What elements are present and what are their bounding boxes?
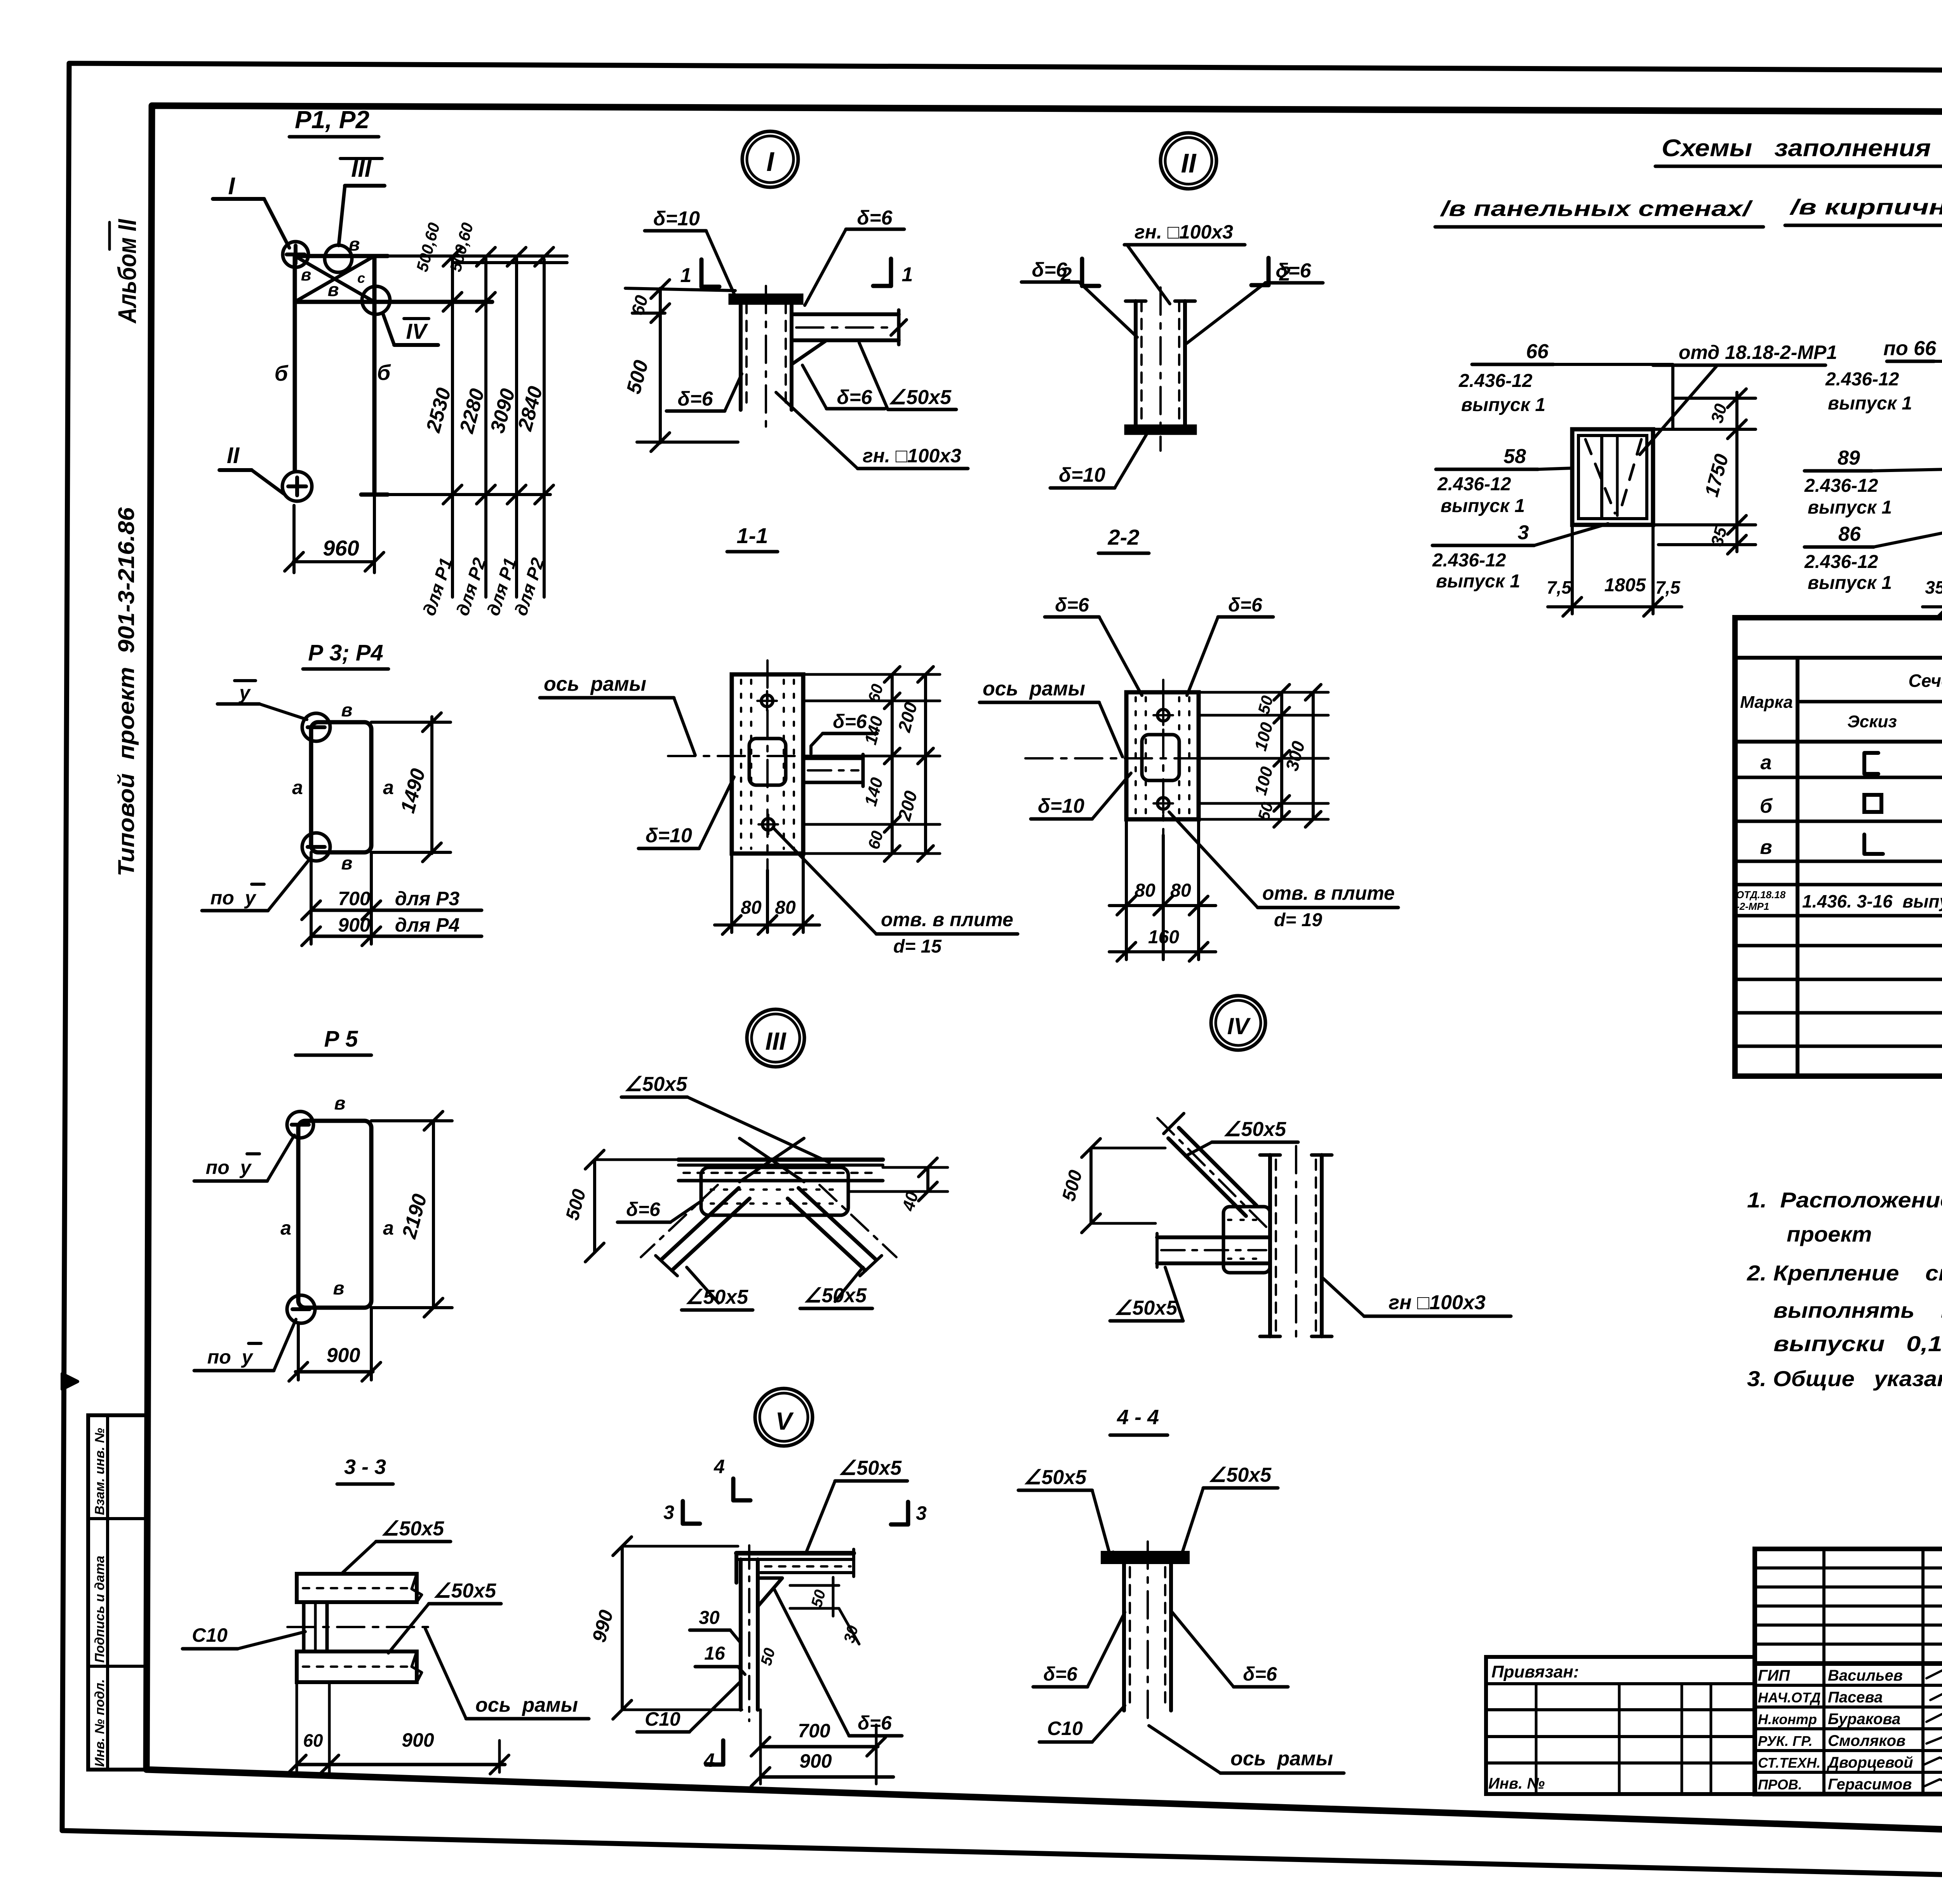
svg-text:ПРОВ.: ПРОВ. (1758, 1777, 1802, 1793)
svg-text:2.436-12: 2.436-12 (1804, 552, 1878, 572)
svg-text:а: а (383, 1217, 394, 1239)
row a: channel sketch (1864, 753, 1878, 774)
V small dimension 50/30 right (790, 1584, 839, 1587)
svg-text:δ=6: δ=6 (1055, 594, 1089, 616)
node circle section III (325, 245, 352, 272)
svg-text:δ=6: δ=6 (833, 711, 867, 732)
svg-text:d= 15: d= 15 (893, 936, 942, 957)
svg-text:∠50х5: ∠50х5 (1223, 1118, 1286, 1141)
svg-text:1-1: 1-1 (737, 523, 768, 548)
svg-text:∠50х5: ∠50х5 (888, 386, 952, 409)
svg-text:∠50х5: ∠50х5 (839, 1457, 902, 1479)
svg-text:по у: по у (211, 887, 257, 909)
IV gusset plate on column (1223, 1207, 1270, 1273)
svg-text:3: 3 (663, 1502, 674, 1523)
svg-text:80: 80 (1170, 880, 1191, 901)
svg-text:δ=6: δ=6 (626, 1198, 661, 1220)
detail II base plate (1126, 426, 1195, 433)
1-1 bolt hole top (761, 695, 773, 707)
svg-text:58: 58 (1503, 445, 1526, 468)
P1,P2 top panel diagonals (295, 256, 374, 302)
svg-text:гн. □100х3: гн. □100х3 (863, 445, 961, 467)
svg-text:/в кирпичных стенах/: /в кирпичных стенах/ (1789, 195, 1942, 219)
svg-text:2-2: 2-2 (1108, 525, 1140, 549)
svg-text:Альбом II: Альбом II (113, 219, 141, 324)
svg-text:1805: 1805 (1604, 575, 1646, 596)
svg-text:С10: С10 (645, 1708, 680, 1730)
svg-text:а: а (292, 777, 303, 798)
III gusset plate (701, 1167, 848, 1215)
svg-text:по у: по у (206, 1157, 252, 1178)
svg-text:Пасева: Пасева (1828, 1689, 1883, 1706)
svg-text:Сечения: Сечения (1908, 671, 1942, 691)
window 1 mullion (1600, 435, 1603, 519)
stamp: Привязан table (1486, 1657, 1755, 1794)
2-2 bolt hole top (1157, 709, 1169, 721)
svg-text:ГИП: ГИП (1758, 1667, 1790, 1684)
svg-text:Схемы заполнения оконных: Схемы заполнения оконных проемов ОК1 (1662, 135, 1942, 162)
svg-text:II: II (1181, 148, 1197, 178)
2-2 plate weld hatch (1135, 697, 1137, 814)
P5 dimension 2190 (432, 1121, 435, 1308)
svg-text:IV: IV (406, 319, 429, 343)
svg-text:δ=6: δ=6 (1276, 260, 1311, 282)
svg-text:/в панельных стенах/: /в панельных стенах/ (1439, 196, 1753, 221)
svg-text:отв. в плите: отв. в плите (881, 909, 1013, 930)
3-3 web channel C10 (302, 1602, 306, 1651)
detail II column (tube) (1134, 301, 1138, 426)
4-4 top flange plate (1103, 1553, 1188, 1562)
svg-text:δ=6: δ=6 (1032, 259, 1067, 281)
svg-text:ось рамы: ось рамы (983, 678, 1085, 700)
P1,P2 frame bottom of top panel (295, 300, 492, 304)
node circle section II (282, 472, 312, 501)
svg-text:δ=6: δ=6 (857, 207, 893, 229)
svg-text:Дворцевой: Дворцевой (1827, 1754, 1913, 1771)
svg-text:Герасимов: Герасимов (1828, 1776, 1912, 1793)
svg-text:выпуск 1: выпуск 1 (1461, 395, 1545, 415)
svg-text:35: 35 (1925, 577, 1942, 598)
svg-text:в: в (301, 265, 311, 284)
svg-text:2.436-12: 2.436-12 (1432, 550, 1506, 571)
svg-text:4: 4 (713, 1456, 725, 1477)
2-2 bottom dimension 80/80 and 160 (1125, 819, 1128, 960)
svg-text:89: 89 (1838, 447, 1860, 469)
svg-text:Смоляков: Смоляков (1828, 1732, 1905, 1749)
svg-text:δ=10: δ=10 (1059, 464, 1105, 486)
P1,P2 frame left chord (293, 256, 297, 470)
svg-text:выполнять в соответствии: выполнять в соответствии с серией 2.436-… (1773, 1298, 1942, 1322)
III dimension 500 left (593, 1160, 596, 1252)
node circle section IV (362, 286, 390, 314)
svg-text:выпуск 1: выпуск 1 (1441, 496, 1525, 516)
svg-text:РУК. ГР.: РУК. ГР. (1758, 1733, 1813, 1749)
svg-text:2. Крепление стальных пер: 2. Крепление стальных переплетов в оконн… (1747, 1261, 1942, 1285)
svg-text:δ=6: δ=6 (1043, 1663, 1078, 1685)
1-1 tube cross-section (749, 739, 786, 785)
3-3 top flange sandwich (297, 1574, 417, 1602)
svg-text:2.436-12: 2.436-12 (1804, 476, 1878, 496)
section circle I (double ring) (742, 131, 798, 187)
svg-text:700: 700 (798, 1720, 830, 1742)
svg-text:1. Расположение оконных пр: 1. Расположение оконных проемов ОК1 смот… (1747, 1188, 1942, 1212)
svg-text:по у: по у (207, 1346, 254, 1368)
svg-text:∠50х5: ∠50х5 (804, 1284, 867, 1307)
svg-text:отд 18.18-2-МР1: отд 18.18-2-МР1 (1679, 341, 1837, 363)
V dimension 990 (621, 1546, 624, 1710)
svg-text:б: б (275, 361, 289, 385)
3-3 break marks right (412, 1574, 422, 1602)
svg-text:80: 80 (741, 897, 762, 918)
svg-text:δ=6: δ=6 (1243, 1663, 1277, 1685)
1-1 base plate outline (732, 674, 803, 854)
svg-text:гн □100х3: гн □100х3 (1389, 1291, 1486, 1314)
svg-text:2.436-12: 2.436-12 (1437, 474, 1511, 495)
svg-text:3. Общие указания смотреть: 3. Общие указания смотреть на листе 1. (1747, 1366, 1942, 1391)
table header grid (1735, 656, 1942, 660)
svg-text:III: III (765, 1027, 787, 1055)
svg-text:Подпись и дата: Подпись и дата (92, 1556, 107, 1663)
P5 node circle top (287, 1111, 313, 1138)
svg-text:в: в (328, 280, 339, 300)
svg-text:δ=10: δ=10 (1038, 795, 1084, 817)
svg-text:б: б (377, 360, 391, 385)
svg-text:ось рамы: ось рамы (1230, 1747, 1333, 1770)
svg-text:3 - 3: 3 - 3 (344, 1455, 386, 1479)
2-2 plate outline (1126, 692, 1199, 819)
svg-text:30: 30 (699, 1608, 720, 1628)
svg-text:∠50х5: ∠50х5 (685, 1286, 748, 1308)
node circle section I (283, 242, 308, 267)
row б: square tube sketch (1864, 795, 1881, 812)
svg-text:900: 900 (799, 1750, 832, 1772)
1-1 bottom dimension 80/80 (730, 854, 733, 932)
svg-text:с: с (357, 270, 365, 286)
stamp: upper small table (1755, 1549, 1942, 1664)
2-2 centre line vertical (1162, 680, 1164, 835)
svg-text:выпуск 1: выпуск 1 (1808, 497, 1892, 518)
svg-text:-2-МР1: -2-МР1 (1736, 901, 1769, 912)
section circle II (double ring) (1161, 133, 1216, 189)
svg-text:Н.контр: Н.контр (1758, 1711, 1817, 1727)
svg-text:СТ.ТЕХН.: СТ.ТЕХН. (1758, 1755, 1820, 1771)
III gusset weld x-hatch (711, 1188, 839, 1191)
svg-text:отв. в плите: отв. в плите (1262, 882, 1395, 904)
svg-text:700: 700 (338, 888, 371, 909)
1-1 centre line vertical (766, 660, 769, 870)
section circle IV (double ring) (1211, 996, 1265, 1050)
P1,P2 frame top member (295, 254, 374, 258)
III dimension 40 right (926, 1167, 929, 1192)
svg-text:у: у (238, 682, 251, 704)
svg-text:Р 3; Р4: Р 3; Р4 (308, 640, 383, 665)
P3,P4 node circle top (302, 713, 330, 741)
svg-text:7,5: 7,5 (1547, 577, 1572, 598)
2-2 centre line horizontal (1025, 757, 1286, 760)
svg-text:2.436-12: 2.436-12 (1825, 369, 1899, 390)
window 1 bottom dimension 7,5 / 1805 / 7,5 (1571, 525, 1574, 614)
dimension 60/500 left of detail I (659, 288, 662, 443)
svg-text:ось рамы: ось рамы (475, 1694, 578, 1716)
svg-text:V: V (776, 1407, 794, 1435)
svg-text:Взам. инв. №: Взам. инв. № (92, 1428, 107, 1515)
svg-text:d= 19: d= 19 (1274, 910, 1322, 930)
svg-text:80: 80 (1135, 880, 1155, 901)
svg-text:для Р3: для Р3 (395, 888, 460, 909)
IV diagonal brace from upper left (1168, 1138, 1246, 1216)
2-2 bolt hole bottom (1157, 798, 1169, 809)
svg-text:1: 1 (902, 263, 913, 286)
svg-text:Эскиз: Эскиз (1847, 712, 1897, 731)
4-4 weld flare marks (1113, 1552, 1124, 1562)
dimension line 2530 / для Р1 (451, 257, 454, 597)
svg-text:δ=6: δ=6 (1228, 594, 1263, 616)
svg-text:в: в (349, 234, 360, 255)
svg-text:∠50х5: ∠50х5 (1114, 1297, 1178, 1319)
svg-text:3: 3 (1518, 521, 1529, 544)
window 1 sash inner frame (1578, 435, 1647, 519)
svg-text:900: 900 (338, 914, 371, 936)
svg-text:в: в (333, 1278, 345, 1299)
svg-text:выпуск 1: выпуск 1 (1808, 573, 1892, 593)
row в: angle sketch (1864, 834, 1883, 854)
table row lines (1735, 776, 1942, 779)
svg-text:Буракова: Буракова (1828, 1711, 1900, 1728)
3-3 centre line (287, 1626, 435, 1628)
svg-text:ось рамы: ось рамы (544, 673, 646, 695)
P1,P2 frame right chord (372, 256, 377, 495)
svg-text:7,5: 7,5 (1655, 577, 1681, 598)
svg-text:а: а (383, 777, 394, 798)
window 1 opening-direction dashed V (1585, 439, 1615, 513)
svg-text:900: 900 (402, 1729, 434, 1751)
1-1 plate weld hatch right (783, 680, 785, 849)
III cross X at beam centre (740, 1138, 804, 1182)
svg-text:в: в (1760, 836, 1772, 859)
svg-text:НАЧ.ОТД: НАЧ.ОТД (1758, 1690, 1821, 1705)
sidebar strip table (88, 1415, 146, 1770)
window 1 right dimension chain 30/1750/35 (1735, 392, 1738, 552)
svg-text:ОТД.18.18: ОТД.18.18 (1736, 889, 1786, 901)
bottom chord dimension line (374, 493, 550, 496)
V top beam (angle) (736, 1551, 854, 1556)
V column (739, 1559, 743, 1710)
svg-text:проект АР: проект АР листы 8,9. (1787, 1222, 1942, 1246)
1-1 bolt hole bottom (762, 819, 774, 830)
svg-text:выпуск 1: выпуск 1 (1828, 393, 1912, 414)
detail I cap plate (730, 295, 802, 303)
P3,P4 dimension 1490 (430, 717, 433, 854)
svg-text:Васильев: Васильев (1828, 1667, 1903, 1684)
top dimension extension lines 500,60 (374, 254, 567, 258)
svg-text:Инв. № подл.: Инв. № подл. (92, 1679, 107, 1767)
dimension line 3090 / для Р1 (515, 258, 518, 597)
3-3 bottom flange sandwich (297, 1651, 417, 1682)
svg-text:∠50х5: ∠50х5 (624, 1073, 687, 1096)
table Ведомость элементов outer box (1735, 618, 1942, 1076)
svg-text:1: 1 (680, 264, 692, 287)
III right brace (angle) (799, 1188, 876, 1260)
svg-text:4: 4 (703, 1749, 715, 1771)
svg-text:гн. □100х3: гн. □100х3 (1135, 221, 1233, 243)
svg-text:66: 66 (1526, 340, 1549, 363)
svg-text:С10: С10 (1047, 1718, 1083, 1739)
fold mark arrow on left border (62, 1374, 78, 1389)
svg-text:60: 60 (303, 1730, 323, 1751)
stamp: signature rows (1755, 1664, 1942, 1794)
1-1 centre line horizontal (668, 755, 886, 757)
P5 node circle bottom (287, 1295, 315, 1323)
III left brace (angle) (672, 1198, 750, 1270)
2-2 right dimension chain 50/100/100/50 and 300 (1199, 691, 1328, 694)
svg-text:С10: С10 (192, 1624, 228, 1646)
svg-text:86: 86 (1838, 523, 1861, 545)
V gusset under beam (758, 1578, 782, 1606)
svg-text:960: 960 (323, 536, 359, 560)
P5 frame rectangle (298, 1121, 371, 1308)
svg-text:Привязан:: Привязан: (1491, 1662, 1579, 1681)
svg-text:2.436-12: 2.436-12 (1458, 371, 1533, 391)
svg-text:16: 16 (704, 1643, 725, 1664)
svg-text:в: в (341, 853, 353, 874)
svg-text:δ=10: δ=10 (653, 207, 700, 230)
svg-text:∠50х5: ∠50х5 (381, 1517, 444, 1540)
4-4 column (channel pair) (1122, 1562, 1126, 1711)
IV horizontal beam to left (1157, 1235, 1270, 1239)
1-1 plate weld hatch left (740, 680, 742, 849)
1-1 beam stub right (channel top view) (803, 757, 863, 760)
svg-text:δ=10: δ=10 (646, 824, 692, 847)
svg-text:160: 160 (1148, 927, 1179, 948)
IV column (tube) (1268, 1155, 1272, 1336)
svg-text:Инв. №: Инв. № (1488, 1775, 1545, 1792)
svg-text:б: б (1760, 795, 1773, 817)
window 1 opening outer frame (1572, 429, 1653, 525)
svg-text:∠50х5: ∠50х5 (1208, 1464, 1272, 1486)
svg-text:Марка: Марка (1740, 693, 1793, 712)
svg-text:выпуск 1: выпуск 1 (1436, 571, 1520, 592)
svg-text:1.436. 3-16 выпуски 0,1,2: 1.436. 3-16 выпуски 0,1,2 (1802, 891, 1942, 911)
svg-text:Р1, Р2: Р1, Р2 (295, 106, 369, 134)
svg-text:выпуски 0,1,2.: выпуски 0,1,2. (1773, 1331, 1942, 1356)
svg-text:а: а (280, 1217, 291, 1239)
svg-text:∠50х5: ∠50х5 (1023, 1466, 1087, 1489)
svg-text:δ=6: δ=6 (677, 388, 713, 410)
svg-text:в: в (341, 700, 353, 721)
P3,P4 node circle bottom (302, 833, 330, 861)
dimension line 2840 / для Р2 (543, 260, 546, 597)
svg-text:в: в (334, 1093, 346, 1114)
svg-text:I: I (228, 173, 235, 200)
III top beam (angle pair) (679, 1158, 883, 1162)
IV dimension 500 left (1089, 1148, 1093, 1223)
P3,P4 frame rectangle (311, 722, 371, 852)
detail I beam stub to right (792, 312, 899, 316)
svg-text:I: I (766, 146, 774, 177)
svg-text:4 - 4: 4 - 4 (1117, 1406, 1159, 1429)
svg-text:по 66: по 66 (1883, 337, 1937, 360)
2-2 tube cross-section (1142, 735, 1179, 780)
section circle III (double ring) (747, 1009, 804, 1067)
svg-text:δ=6: δ=6 (837, 386, 872, 409)
svg-text:80: 80 (775, 897, 796, 918)
svg-text:Р 5: Р 5 (324, 1026, 358, 1052)
svg-text:IV: IV (1227, 1013, 1251, 1039)
svg-text:900: 900 (327, 1344, 360, 1367)
svg-text:II: II (227, 443, 240, 468)
1-1 right dimension chain 60/140/140/60 and 200/200 (803, 673, 940, 676)
svg-text:для Р4: для Р4 (395, 914, 460, 936)
dimension line 2280 / для Р2 (484, 258, 487, 597)
svg-text:Типовой проект 901-3-216.86: Типовой проект 901-3-216.86 (114, 507, 139, 876)
detail I gusset bracket (792, 340, 827, 364)
section circle V (double ring) (755, 1388, 813, 1446)
svg-text:а: а (1761, 751, 1772, 774)
svg-text:∠50х5: ∠50х5 (433, 1580, 496, 1602)
svg-text:3: 3 (916, 1502, 927, 1524)
detail I column (tube) (739, 303, 743, 410)
